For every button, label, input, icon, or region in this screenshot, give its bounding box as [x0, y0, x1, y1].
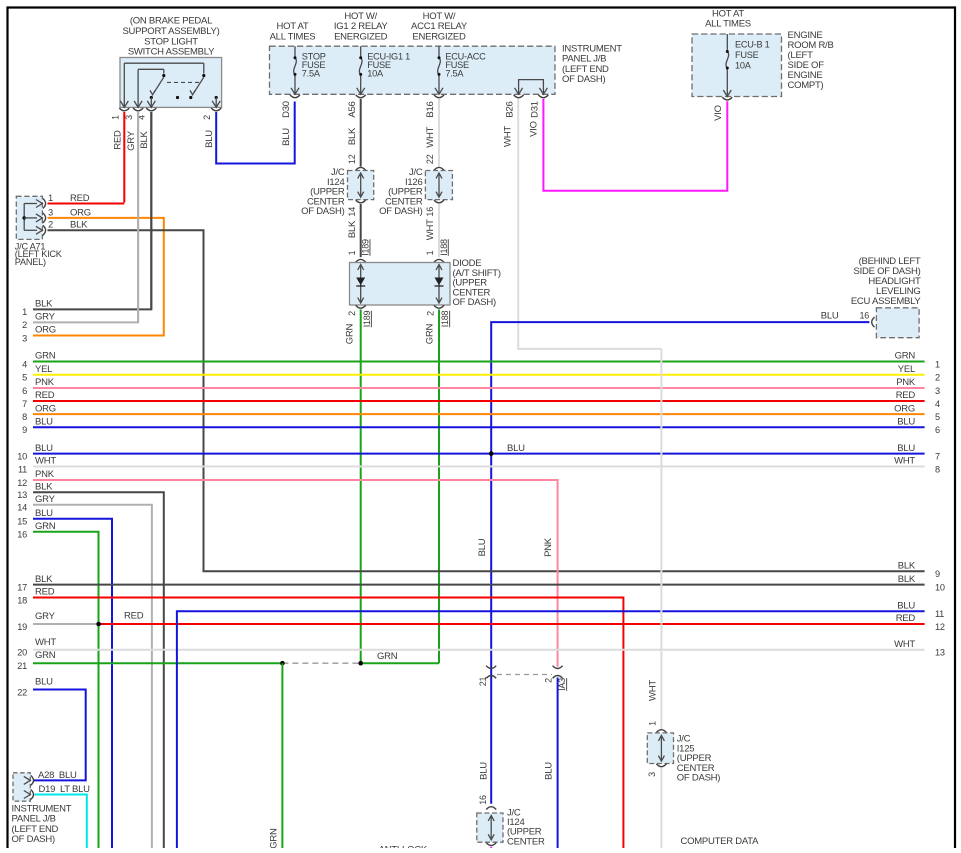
svg-text:RED: RED [896, 390, 916, 401]
left pin 21 label GRN [17, 650, 55, 671]
wire 14 GRY down [33, 505, 152, 848]
wire 16 GRN down [33, 532, 99, 848]
engine room R/B text [788, 30, 834, 91]
svg-text:BLU: BLU [281, 128, 292, 146]
right pin 7 label BLU [897, 443, 940, 462]
svg-text:18: 18 [17, 595, 27, 605]
svg-text:4: 4 [22, 359, 27, 369]
wire 22 BLU to A28 [33, 690, 86, 781]
svg-text:2: 2 [426, 311, 436, 316]
svg-text:10A: 10A [735, 60, 752, 70]
svg-text:A28 BLU: A28 BLU [38, 770, 77, 781]
svg-text:GRN: GRN [35, 351, 56, 362]
right pin 13 label WHT [894, 639, 945, 658]
svg-text:PNK: PNK [896, 377, 916, 388]
svg-text:SWITCH ASSEMBLY: SWITCH ASSEMBLY [128, 47, 215, 58]
diode element right [435, 265, 444, 304]
switch pin connectors [111, 108, 222, 120]
svg-text:YEL: YEL [35, 364, 52, 375]
left pin 4 label GRN [22, 351, 56, 370]
svg-text:10: 10 [17, 451, 27, 461]
wire VIO below J/C I124 [490, 847, 492, 849]
J/C A71 pin labels [48, 193, 91, 231]
svg-text:ORG: ORG [35, 325, 56, 336]
left pin 12 label PNK [17, 469, 54, 488]
wire GRN branch down from splice [268, 663, 282, 849]
wire BLK I124 to diode [347, 204, 371, 257]
svg-text:14: 14 [347, 207, 357, 217]
svg-text:1: 1 [425, 250, 435, 255]
J/B internal jumper B26-D31 [515, 80, 548, 95]
svg-text:13: 13 [17, 490, 27, 500]
svg-text:RED: RED [112, 130, 123, 150]
svg-text:WHT: WHT [35, 637, 56, 648]
svg-text:IA3: IA3 [557, 678, 567, 691]
connector D19 label [39, 784, 91, 795]
svg-text:CENTER: CENTER [507, 836, 545, 847]
J/C I124 lower box [477, 795, 503, 845]
svg-text:BLK: BLK [898, 574, 916, 585]
fuse ECU-ACC 7.5A [435, 46, 486, 94]
svg-text:22: 22 [17, 687, 27, 697]
svg-text:10A: 10A [367, 69, 384, 79]
J/C I124 lower text [507, 808, 545, 848]
headlight leveling ECU text [851, 256, 922, 307]
svg-text:2: 2 [935, 373, 940, 383]
anti-lock text (cut off) [379, 845, 428, 853]
wire 10 BLU with junction [33, 443, 925, 456]
connector A28 label [38, 770, 77, 781]
svg-text:OF DASH): OF DASH) [379, 206, 422, 217]
left pin 2 label GRY [22, 312, 55, 331]
svg-text:8: 8 [935, 464, 940, 474]
svg-text:GRN: GRN [425, 323, 436, 344]
right pin 12 label RED [896, 613, 945, 632]
hot-at-all-times label [270, 21, 316, 42]
right pin 2 label YEL [898, 364, 940, 383]
wire WHT B16 to J/C I126 [425, 99, 439, 167]
stop light switch assembly label [122, 16, 219, 58]
svg-text:21: 21 [478, 677, 488, 687]
svg-text:BLU: BLU [507, 443, 525, 454]
svg-text:ORG: ORG [894, 403, 915, 414]
svg-text:COMPUTER DATA: COMPUTER DATA [681, 836, 760, 847]
wire WHT I126 to diode [425, 204, 449, 257]
svg-text:ANTI-LOCK: ANTI-LOCK [379, 845, 428, 849]
svg-text:BLK: BLK [35, 482, 53, 493]
wire 13 BLK down [33, 492, 164, 848]
svg-text:OF DASH): OF DASH) [12, 834, 55, 845]
svg-text:BLK: BLK [347, 220, 358, 238]
wire BLK A71 pin2 to right pin9 [48, 230, 925, 571]
svg-text:RED: RED [70, 193, 90, 204]
left pin 1 label BLK [22, 299, 53, 318]
wire 17 BLK [33, 584, 925, 586]
svg-text:13: 13 [935, 648, 945, 658]
svg-text:I188: I188 [440, 311, 450, 328]
diode element left [356, 265, 365, 304]
svg-text:ALL TIMES: ALL TIMES [705, 19, 751, 30]
right pin 1 label GRN [895, 351, 940, 370]
svg-text:FUSE: FUSE [735, 50, 759, 60]
svg-text:BLU: BLU [35, 677, 53, 688]
connector B26 [505, 95, 524, 118]
svg-text:RED: RED [35, 587, 55, 598]
left pin 3 label ORG [22, 325, 56, 344]
svg-text:3: 3 [124, 115, 134, 120]
connector D30 [281, 95, 300, 118]
J/C I124 upper box [348, 167, 374, 202]
left pin 8 label ORG [22, 403, 56, 422]
svg-text:6: 6 [22, 386, 27, 396]
svg-text:GRN: GRN [345, 323, 356, 344]
svg-text:VIO: VIO [713, 105, 724, 121]
svg-text:GRN: GRN [268, 828, 279, 848]
svg-text:BLK: BLK [35, 574, 53, 585]
wire 1 BLK to switch pin4 [33, 112, 151, 309]
svg-text:B16: B16 [425, 101, 436, 117]
svg-text:GRN: GRN [35, 650, 56, 661]
svg-text:17: 17 [17, 582, 27, 592]
svg-text:ORG: ORG [70, 207, 91, 218]
svg-text:WHT: WHT [35, 456, 56, 467]
svg-text:WHT: WHT [425, 219, 436, 240]
svg-text:7: 7 [935, 451, 940, 461]
left pin 16 label GRN [17, 521, 55, 540]
left pin 10 label BLU [17, 443, 53, 462]
svg-text:BLK: BLK [898, 561, 916, 572]
svg-text:A56: A56 [347, 101, 358, 117]
svg-text:WHT: WHT [647, 680, 658, 701]
computer data text [681, 836, 760, 847]
svg-text:6: 6 [935, 425, 940, 435]
svg-text:D30: D30 [281, 101, 292, 118]
svg-text:GRN: GRN [35, 521, 56, 532]
svg-text:12: 12 [935, 622, 945, 632]
left pin 11 label WHT [18, 456, 56, 475]
hot at all times label (ECU-B) [705, 9, 751, 30]
svg-text:ALL TIMES: ALL TIMES [270, 31, 316, 42]
left pin 5 label YEL [22, 364, 52, 383]
left pin 22 label BLU [17, 677, 53, 698]
instrument panel J/B bottom text [12, 804, 72, 846]
J/C I124 upper text [301, 167, 345, 217]
svg-text:WHT: WHT [502, 126, 513, 147]
left pin 7 label RED [22, 390, 55, 409]
wire WHT B26 down and over [502, 99, 661, 349]
svg-text:3: 3 [935, 386, 940, 396]
svg-text:2: 2 [48, 220, 53, 230]
svg-text:GRY: GRY [126, 130, 137, 151]
wire 4 GRN [33, 361, 925, 363]
wire GRN diode left down [360, 310, 362, 664]
svg-text:PANEL): PANEL) [15, 257, 46, 267]
stop light switch assembly box [120, 58, 222, 108]
svg-text:BLU: BLU [821, 311, 839, 322]
svg-text:3: 3 [22, 333, 27, 343]
wire 15 BLU down [33, 519, 112, 848]
connector D31 [530, 95, 549, 118]
J/C I126 text [379, 167, 423, 217]
wire 8 ORG [33, 413, 925, 415]
svg-text:RED: RED [35, 390, 55, 401]
svg-text:ENERGIZED: ENERGIZED [412, 31, 466, 42]
right pin 8 label WHT [894, 456, 940, 475]
wire 20 WHT [33, 649, 925, 651]
svg-text:16: 16 [17, 530, 27, 540]
right pin 9 label BLK [898, 561, 940, 580]
J/C I125 text [677, 734, 720, 784]
switch internal wiring [124, 63, 205, 107]
svg-text:9: 9 [22, 425, 27, 435]
svg-text:BLU: BLU [543, 762, 554, 780]
svg-text:22: 22 [425, 154, 435, 164]
J/C A71 text [15, 241, 63, 267]
svg-text:5: 5 [935, 412, 940, 422]
J/C I125 box [647, 730, 673, 777]
svg-text:ORG: ORG [35, 403, 56, 414]
svg-text:GRN: GRN [377, 651, 398, 662]
left pin 14 label GRY [17, 494, 55, 513]
svg-text:PNK: PNK [543, 537, 554, 557]
svg-text:B26: B26 [505, 101, 516, 117]
svg-text:2: 2 [202, 115, 212, 120]
fuse ECU-B 1 10A [723, 34, 769, 97]
svg-text:1: 1 [111, 115, 121, 120]
instrument panel J/B text [562, 43, 622, 85]
svg-text:ECU ASSEMBLY: ECU ASSEMBLY [851, 296, 922, 307]
left pin 6 label PNK [22, 377, 55, 396]
headlight leveling ECU box [876, 308, 919, 338]
svg-text:BLU: BLU [35, 508, 53, 519]
left pin 17 label BLK [17, 574, 53, 593]
svg-text:2: 2 [22, 320, 27, 330]
wire GRN diode right down [438, 310, 440, 664]
left pin 19 label GRY [17, 611, 55, 632]
J/C A71 box [16, 196, 42, 239]
svg-text:ENERGIZED: ENERGIZED [334, 31, 388, 42]
svg-text:GRY: GRY [35, 494, 56, 505]
wire BLK switch pin 4 [139, 112, 151, 309]
svg-text:15: 15 [17, 517, 27, 527]
svg-text:1: 1 [648, 721, 658, 726]
svg-text:2: 2 [543, 678, 553, 683]
wire LT BLU from D19 [35, 795, 87, 849]
svg-text:12: 12 [347, 154, 357, 164]
wire 5 YEL [33, 374, 925, 376]
svg-text:D19 LT BLU: D19 LT BLU [39, 784, 91, 795]
wire 2 GRY to switch pin3 [33, 112, 138, 322]
IA3 connector dashed link [497, 674, 552, 676]
svg-text:BLU: BLU [477, 538, 488, 556]
svg-text:I189: I189 [361, 239, 371, 256]
svg-text:16: 16 [478, 795, 488, 805]
svg-text:1: 1 [22, 307, 27, 317]
svg-text:WHT: WHT [425, 126, 436, 147]
left pin 20 label WHT [17, 637, 56, 658]
wire RED switch pin 1 [48, 112, 125, 204]
left pin 13 label BLK [17, 482, 53, 501]
svg-text:RED: RED [896, 613, 916, 624]
wire 21 GRN with splices [33, 651, 439, 665]
right pin 4 label RED [896, 390, 940, 409]
svg-text:3: 3 [647, 772, 657, 777]
svg-text:11: 11 [935, 609, 944, 619]
fuse STOP 7.5A [291, 46, 326, 94]
svg-text:20: 20 [17, 648, 27, 658]
right pin 5 label ORG [894, 403, 940, 422]
svg-text:GRN: GRN [895, 351, 916, 362]
svg-text:WHT: WHT [894, 639, 915, 650]
wire BLU switch pin 2 to fuse D30 [204, 102, 295, 164]
connector below ECU-B fuse [722, 97, 732, 100]
svg-text:OF DASH): OF DASH) [562, 74, 605, 85]
wire 11 BLU right down [177, 611, 925, 848]
svg-text:ECU-B 1: ECU-B 1 [735, 40, 770, 50]
J/C A71 internal bus [22, 199, 45, 236]
fuse ECU-IG1 1 10A [357, 46, 410, 94]
svg-text:7: 7 [22, 399, 27, 409]
left pin 15 label BLU [17, 508, 53, 527]
svg-text:10: 10 [935, 582, 945, 592]
svg-text:D31: D31 [530, 101, 541, 118]
svg-text:16: 16 [425, 207, 435, 217]
svg-text:BLU: BLU [897, 600, 915, 611]
diode text [453, 258, 501, 308]
right pin 3 label PNK [896, 377, 940, 396]
instrument panel J/B box [270, 46, 556, 94]
svg-text:BLK: BLK [70, 220, 88, 231]
left pin 18 label RED [17, 587, 54, 606]
svg-text:21: 21 [17, 661, 27, 671]
right pin 6 label BLU [897, 417, 940, 436]
wire BLU labels on long vertical [477, 538, 490, 780]
wire BLK A56 to J/C I124 [347, 99, 361, 167]
engine room R/B box [692, 34, 782, 97]
svg-text:BLK: BLK [35, 299, 53, 310]
diode bottom connectors [345, 305, 451, 344]
svg-text:3: 3 [48, 207, 53, 217]
wire 6 PNK [33, 387, 925, 389]
wire WHT to J/C I125 [647, 349, 661, 730]
switch blade contacts [120, 77, 220, 107]
wire 9 BLU [33, 426, 925, 428]
svg-text:11: 11 [18, 464, 27, 474]
svg-text:RED: RED [124, 611, 144, 622]
wire BLU below IA3 pin2 [543, 678, 557, 849]
svg-text:GRY: GRY [35, 611, 56, 622]
instrument panel J/B bottom box [13, 773, 34, 801]
right pin 10 label BLK [898, 574, 945, 593]
svg-text:14: 14 [17, 503, 27, 513]
wire ORG A71 pin3 [33, 218, 164, 336]
svg-text:I188: I188 [439, 239, 449, 256]
hot w/ ACC1 label [411, 11, 468, 42]
svg-text:VIO: VIO [529, 121, 540, 137]
svg-text:1: 1 [347, 250, 357, 255]
connector B16 [425, 95, 444, 118]
svg-text:19: 19 [17, 622, 27, 632]
svg-text:8: 8 [22, 412, 27, 422]
svg-text:16: 16 [859, 311, 869, 321]
svg-text:OF DASH): OF DASH) [677, 773, 720, 784]
left pin 9 label BLU [22, 417, 53, 436]
svg-text:7.5A: 7.5A [445, 69, 464, 79]
svg-text:GRY: GRY [35, 312, 56, 323]
svg-text:1: 1 [935, 359, 940, 369]
svg-text:I189: I189 [362, 311, 372, 328]
svg-text:BLK: BLK [347, 127, 358, 145]
svg-text:12: 12 [17, 478, 27, 488]
wire WHT below I125 [660, 768, 662, 848]
svg-text:9: 9 [935, 569, 940, 579]
wire 18 RED down [33, 598, 623, 849]
J/C I126 box [425, 167, 452, 202]
svg-text:4: 4 [935, 399, 940, 409]
svg-text:1: 1 [48, 193, 53, 203]
svg-text:5: 5 [22, 373, 27, 383]
svg-text:WHT: WHT [894, 456, 915, 467]
svg-text:YEL: YEL [898, 364, 915, 375]
svg-text:PNK: PNK [35, 377, 55, 388]
svg-text:OF DASH): OF DASH) [301, 206, 344, 217]
svg-text:7.5A: 7.5A [302, 69, 321, 79]
wire 11 WHT [33, 466, 925, 468]
svg-text:2: 2 [347, 311, 357, 316]
svg-text:BLU: BLU [35, 417, 53, 428]
connector IA3 pin 21 [478, 666, 496, 687]
connector A56 [347, 95, 366, 118]
wire 19 GRY-RED with splice [33, 611, 925, 627]
svg-text:BLU: BLU [479, 762, 490, 780]
wire GRY switch pin 3 [126, 112, 138, 322]
right pin 11 label BLU [897, 600, 944, 619]
wire 12 PNK to IA3 [33, 480, 558, 667]
svg-text:BLU: BLU [897, 417, 915, 428]
svg-text:BLK: BLK [139, 130, 150, 148]
svg-text:BLU: BLU [204, 130, 215, 148]
wire VIO D31 to ECU-B fuse [529, 99, 728, 191]
svg-text:OF DASH): OF DASH) [453, 297, 496, 308]
wire BLU to headlight ECU pin 16 [491, 311, 874, 804]
svg-text:PNK: PNK [35, 469, 55, 480]
wire 7 RED [33, 400, 925, 402]
svg-text:COMPT): COMPT) [788, 80, 824, 91]
svg-text:BLU: BLU [35, 443, 53, 454]
connector IA3 pin 2 [543, 666, 567, 691]
diode A/T shift box [350, 259, 451, 305]
svg-text:BLU: BLU [897, 443, 915, 454]
hot w/ IG1 label [334, 11, 388, 42]
